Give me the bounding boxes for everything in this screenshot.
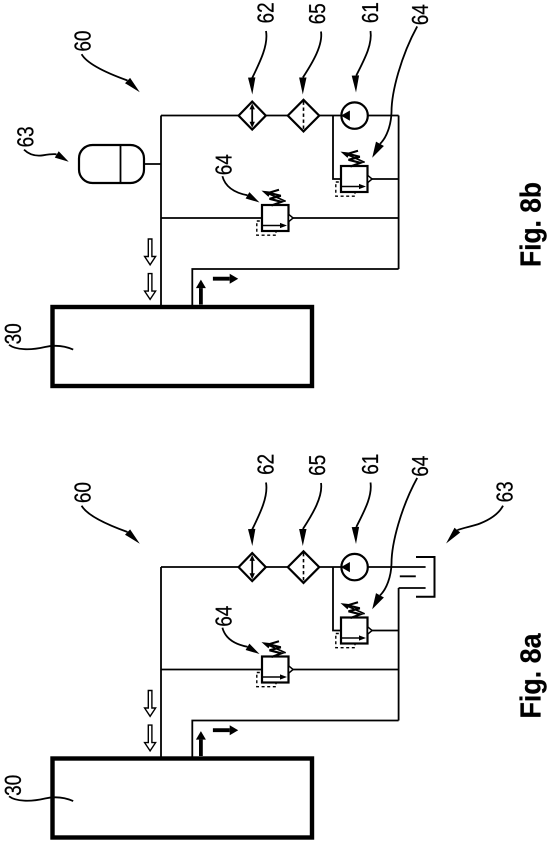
label 30 (Fig. 8b) [5,324,21,344]
wire: right vertical line (Fig. 8b) [398,116,400,270]
wire: second line from trunk to lower valve 64 (Fig. 8a) [161,669,262,671]
wire: left trunk line down to reservoir (Fig. 8a) [160,567,162,758]
leader 30 squiggle (Fig. 8a) [9,796,73,801]
label 63 (Fig. 8a) [496,482,512,501]
leader 64 upper (Fig. 8a) [380,478,417,595]
valve 64 lower (Fig. 8b) internal flow arrow [263,225,282,227]
wire: branch from main line to upper valve 64 (Fig. 8b) [333,116,341,180]
leader 64 upper (Fig. 8b) [380,26,417,143]
valve 64 upper (Fig. 8a) outlet seat triangle [368,627,373,635]
label 63 (Fig. 8b) [17,127,33,146]
flow arrow filled up (Fig. 8a) [199,740,203,756]
leader 61 (Fig. 8b) [356,31,370,76]
wire: accumulator stub (Fig. 8b) [144,163,161,165]
wire: return line to reservoir 30 (Fig. 8b) [192,269,398,306]
component 63: accumulator divider (Fig. 8b) [120,145,122,183]
leader 62 (Fig. 8a) [252,483,266,530]
valve 64 lower (Fig. 8b) spring [269,190,282,206]
valve 64 upper (Fig. 8b) spring adjustment arrow [347,154,365,162]
leader 60 (Fig. 8b) [82,54,128,80]
wire: second line from trunk to lower valve 64 (Fig. 8b) [161,217,262,219]
component 63: accumulator (Fig. 8b) [79,145,144,183]
valve 64 upper (Fig. 8a) body [341,618,368,644]
wire: right vertical return line (Fig. 8a) [398,588,400,721]
flow arrow filled right (Fig. 8b) [213,277,230,281]
leader 30 squiggle (Fig. 8b) [9,345,73,350]
valve 64 lower (Fig. 8a) spring adjustment arrow [268,645,286,653]
valve 64 lower (Fig. 8a) outlet seat triangle [289,666,294,674]
caption Fig. 8a [520,633,547,716]
flow arrow hollow down 2 (Fig. 8a) [145,725,156,751]
component 62: dryer diamond (Fig. 8a) [239,553,266,581]
leader 65 (Fig. 8b) [303,32,321,78]
component 61: pump circle (Fig. 8a) [341,554,367,580]
valve 64 upper (Fig. 8a) dashed pilot box [336,634,355,648]
label 64 lower (Fig. 8a) [215,606,231,625]
wire: main supply line (Fig. 8a) [161,566,426,568]
valve 64 lower (Fig. 8a) body [262,657,289,683]
label 60 (Fig. 8b) [74,31,90,50]
leader 60 (Fig. 8a) [82,506,128,532]
valve 64 lower (Fig. 8a) dashed pilot box [257,673,276,687]
leader 64 lower (Fig. 8a) [222,628,247,647]
flow arrow filled up (Fig. 8b) [199,288,203,304]
wire: tank drain stub (Fig. 8a) [400,575,416,577]
wire: left trunk line down to reservoir (Fig. 8b) [160,116,162,307]
valve 64 lower (Fig. 8a) spring [269,641,282,657]
label 64 lower (Fig. 8b) [215,155,231,174]
component 65: filter diamond with dashed element (Fig. 8b) [288,100,319,132]
label 60 (Fig. 8a) [74,483,90,502]
component 62: dryer diamond (Fig. 8b) [239,102,266,130]
component 62: internal double-headed arrow (Fig. 8a) [251,558,253,576]
wire: main supply line (Fig. 8b) [161,115,399,117]
valve 64 lower (Fig. 8b) dashed pilot box [257,221,276,235]
flow arrow filled right (Fig. 8a) [213,728,230,732]
wire: return line to reservoir 30 (Fig. 8a) [192,721,398,758]
valve 64 upper (Fig. 8a) internal flow arrow [342,637,361,639]
leader 63 (Fig. 8b) [24,150,57,156]
valve 64 lower (Fig. 8a) internal flow arrow [263,676,282,678]
valve 64 upper (Fig. 8a) spring [348,602,361,618]
valve 64 upper (Fig. 8b) outlet seat triangle [368,175,373,183]
label 61 (Fig. 8a) [362,455,378,474]
flow arrow hollow down 2 (Fig. 8b) [145,274,156,300]
component 61: pump circle (Fig. 8b) [341,102,367,128]
leader 62 (Fig. 8b) [252,31,266,78]
valve 64 upper (Fig. 8a) spring adjustment arrow [347,606,365,614]
wire: lower valve 64 outlet line (Fig. 8b) [293,217,399,219]
component 62: internal double-headed arrow (Fig. 8b) [251,107,253,125]
valve 64 lower (Fig. 8b) outlet seat triangle [289,214,294,222]
component 61: pump direction triangle (Fig. 8a) [341,562,350,572]
wire: upper valve 64 outlet line (Fig. 8b) [372,178,399,180]
valve 64 upper (Fig. 8b) internal flow arrow [342,186,361,188]
valve 64 lower (Fig. 8b) spring adjustment arrow [268,193,286,201]
label 62 (Fig. 8a) [257,455,273,474]
label 65 (Fig. 8b) [309,4,325,23]
component 63: tank (Fig. 8a) [416,557,435,597]
reservoir 30 (Fig. 8a) [53,759,313,838]
wire: lower valve 64 outlet line (Fig. 8a) [293,669,399,671]
valve 64 upper (Fig. 8b) dashed pilot box [336,182,355,196]
wire: upper valve 64 outlet line (Fig. 8a) [372,630,399,632]
label 61 (Fig. 8b) [362,3,378,22]
wire: return line into tank (Fig. 8a) [399,587,426,589]
valve 64 lower (Fig. 8b) body [262,205,289,231]
caption Fig. 8b [520,183,547,265]
leader 64 lower (Fig. 8b) [222,176,247,195]
component 61: pump direction triangle (Fig. 8b) [341,111,350,121]
label 62 (Fig. 8b) [257,3,273,22]
wire: branch from main line to upper valve 64 (Fig. 8a) [333,567,341,631]
label 65 (Fig. 8a) [309,456,325,475]
label 30 (Fig. 8a) [5,776,21,796]
leader 61 (Fig. 8a) [356,483,370,528]
leader 65 (Fig. 8a) [303,483,321,529]
flow arrow hollow down 1 (Fig. 8a) [145,691,156,717]
label 64 upper (Fig. 8b) [412,5,428,24]
valve 64 upper (Fig. 8b) body [341,166,368,192]
component 65: filter diamond with dashed element (Fig. 8a) [288,551,319,583]
flow arrow hollow down 1 (Fig. 8b) [145,239,156,265]
leader 63 (Fig. 8a) [457,506,503,530]
valve 64 upper (Fig. 8b) spring [348,151,361,167]
reservoir 30 (Fig. 8b) [53,307,313,386]
label 64 upper (Fig. 8a) [412,456,428,475]
